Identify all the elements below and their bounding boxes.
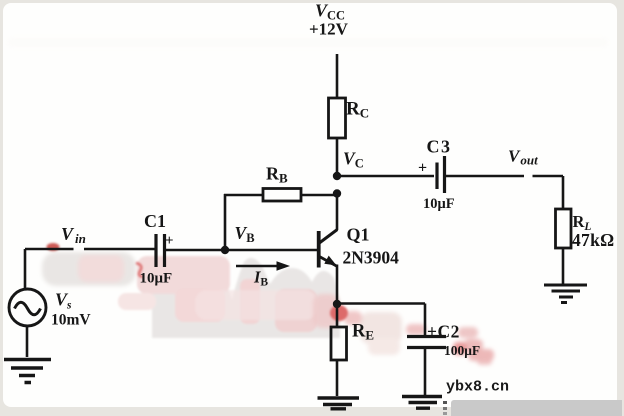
ground below RE bbox=[318, 398, 360, 409]
svg-text:2N3904: 2N3904 bbox=[343, 248, 400, 268]
svg-text:47kΩ: 47kΩ bbox=[572, 230, 614, 250]
svg-text:VC: VC bbox=[343, 149, 364, 171]
resistor RC bbox=[329, 98, 346, 138]
svg-text:+12V: +12V bbox=[309, 20, 349, 39]
wire RC to Vc bbox=[336, 138, 339, 176]
resistor RB bbox=[263, 189, 301, 202]
capacitor C2 bbox=[407, 335, 446, 338]
resistor RL bbox=[556, 209, 572, 248]
transistor Q1 collector diagonal bbox=[319, 230, 337, 244]
watermark faint band top bbox=[8, 38, 608, 47]
sine symbol in Vs bbox=[15, 302, 41, 315]
wire RE to ground bbox=[336, 360, 339, 396]
watermark red curve near C1 bbox=[136, 263, 143, 277]
svg-text:10μF: 10μF bbox=[140, 271, 173, 287]
wire C1 to Vb bbox=[166, 249, 225, 252]
wire C3 to Vout bbox=[446, 175, 563, 178]
resistor RE bbox=[331, 327, 347, 360]
watermark red mark on input wire bbox=[47, 243, 60, 251]
wire C2 to ground bbox=[424, 349, 427, 395]
svg-text:10μF: 10μF bbox=[423, 196, 455, 212]
wire collector vertical bbox=[336, 194, 339, 230]
ground below C2 bbox=[402, 397, 442, 409]
watermark red dot on emitter wire bbox=[330, 305, 348, 321]
capacitor C3 bbox=[435, 163, 438, 190]
watermark smudge over RE / C2 labels bbox=[313, 294, 494, 365]
ground below RL bbox=[544, 285, 587, 303]
wire RB right to collector node bbox=[301, 194, 337, 197]
transistor Q1 emitter arrowhead bbox=[324, 256, 336, 266]
wire Vout down to RL bbox=[562, 176, 565, 209]
svg-text:C3: C3 bbox=[427, 137, 452, 157]
wire Vs to ground bbox=[26, 326, 29, 357]
current IB arrowhead bbox=[277, 261, 291, 271]
dots left of gray bar bbox=[440, 400, 452, 416]
watermark smudge center mountains bbox=[118, 256, 340, 338]
wire emitter to RE bbox=[336, 304, 339, 327]
wire RB branch vertical bbox=[224, 194, 227, 250]
ground below Vs bbox=[4, 360, 51, 383]
svg-text:Q1: Q1 bbox=[347, 225, 370, 245]
svg-text:Vs: Vs bbox=[55, 290, 72, 312]
svg-text:+C2: +C2 bbox=[427, 322, 460, 342]
watermark smudge left gray blob bbox=[42, 252, 136, 286]
wire Vc to C3 bbox=[337, 175, 434, 178]
svg-text:C1: C1 bbox=[144, 211, 166, 231]
wire Vcc lead bbox=[336, 54, 339, 98]
wire Vin down to source bbox=[24, 249, 27, 289]
svg-text:RC: RC bbox=[346, 99, 369, 121]
svg-text:100μF: 100μF bbox=[444, 343, 480, 358]
svg-text:+: + bbox=[165, 233, 174, 249]
svg-text:Vout: Vout bbox=[508, 147, 538, 168]
source Vs circle bbox=[9, 289, 46, 326]
current IB arrow line bbox=[236, 265, 279, 268]
wire RL to ground bbox=[562, 248, 565, 284]
node RB junction dot bbox=[333, 189, 341, 197]
capacitor C1 bbox=[154, 234, 157, 267]
svg-text:+: + bbox=[418, 160, 427, 177]
svg-text:VB: VB bbox=[235, 223, 255, 245]
svg-text:RB: RB bbox=[266, 164, 288, 186]
svg-text:Vin: Vin bbox=[61, 224, 86, 246]
transistor Q1 base bar bbox=[317, 231, 321, 268]
wire emitter vertical bbox=[336, 265, 339, 305]
node Vc junction dot bbox=[333, 172, 341, 180]
wire Vb to base bbox=[225, 249, 318, 252]
gray bar bottom right bbox=[451, 400, 622, 416]
node Vb junction dot bbox=[221, 246, 229, 254]
node emitter junction dot bbox=[333, 300, 341, 308]
wire C2 top lead bbox=[424, 304, 427, 337]
wire to RB left bbox=[224, 194, 263, 197]
transistor Q1 emitter diagonal bbox=[319, 257, 336, 267]
svg-text:10mV: 10mV bbox=[51, 312, 91, 329]
wire emitter node to C2 bbox=[337, 302, 425, 305]
svg-text:ybx8.cn: ybx8.cn bbox=[446, 379, 509, 396]
wire Vin to C1 bbox=[25, 248, 155, 251]
